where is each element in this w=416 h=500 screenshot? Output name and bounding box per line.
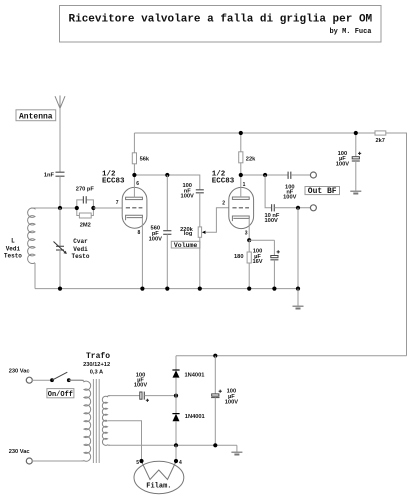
anode U1 bbox=[126, 197, 143, 199]
wire coil bottom bbox=[34, 263, 36, 289]
svg-text:Testo: Testo bbox=[4, 253, 22, 260]
svg-text:6: 6 bbox=[136, 181, 139, 187]
diode D2 1N4001 bbox=[175, 396, 177, 414]
terminal 230Vac top bbox=[26, 377, 32, 383]
capacitor 270 pF bbox=[83, 196, 86, 203]
node combo right bbox=[91, 206, 95, 210]
inductor L bbox=[28, 208, 35, 264]
capacitor 100nF (to volume) bbox=[196, 190, 204, 193]
node out2 bbox=[296, 206, 300, 210]
wire secondary top bbox=[108, 395, 140, 397]
capacitor 100uF 16V bbox=[273, 240, 275, 255]
svg-text:2k7: 2k7 bbox=[375, 138, 385, 144]
capacitor 560 pF bbox=[166, 175, 168, 231]
wire cathode lead U1 bbox=[141, 218, 143, 289]
svg-text:1nF: 1nF bbox=[44, 173, 55, 179]
node bus cathode1 bbox=[140, 287, 144, 291]
wire Cvar bottom bbox=[59, 250, 61, 289]
transformer primary winding bbox=[69, 380, 91, 461]
svg-text:L: L bbox=[11, 238, 15, 245]
transformer secondary winding bottom bbox=[102, 420, 110, 445]
wire to switch bbox=[32, 379, 52, 381]
wire rail to ground bbox=[236, 445, 238, 451]
tube U1 1/2 ECC83 envelope bbox=[122, 187, 147, 228]
capacitor 100uF 100V (B+ decoupling) bbox=[355, 133, 357, 156]
wire anode2 net bbox=[241, 174, 288, 176]
svg-text:Out BF: Out BF bbox=[308, 187, 337, 196]
node 22k top bbox=[239, 131, 243, 135]
wire switch to trafo bbox=[69, 379, 84, 381]
node cathode2 bbox=[247, 238, 251, 242]
node pin 4 bbox=[174, 459, 178, 463]
svg-text:Filam.: Filam. bbox=[146, 482, 171, 490]
Antenna label box bbox=[16, 110, 56, 121]
node out branch bbox=[263, 173, 267, 177]
wire bus to right edge bbox=[386, 133, 407, 356]
Volume label box bbox=[171, 241, 200, 248]
resistor 180 bbox=[248, 240, 250, 252]
capacitor 10 nF bbox=[272, 204, 275, 211]
wire pin4 drop bbox=[175, 445, 177, 461]
svg-text:ECC83: ECC83 bbox=[212, 177, 235, 185]
svg-text:Ricevitore valvolare a falla d: Ricevitore valvolare a falla di griglia … bbox=[69, 14, 373, 26]
cathode U1 bbox=[126, 215, 143, 220]
resistor 22k bbox=[240, 133, 242, 152]
wire B+ bus bbox=[134, 132, 375, 134]
wire anode lead U1 bbox=[133, 175, 135, 197]
svg-text:56k: 56k bbox=[140, 156, 150, 162]
wire resistor branch bbox=[77, 208, 94, 216]
svg-text:Volume: Volume bbox=[174, 242, 198, 249]
node bus 560pF bbox=[165, 287, 169, 291]
node bus Cvar bbox=[58, 287, 62, 291]
svg-text:ECC83: ECC83 bbox=[102, 177, 125, 185]
svg-text:22k: 22k bbox=[246, 156, 256, 162]
cathode U2 bbox=[232, 216, 249, 221]
svg-text:0,3 A: 0,3 A bbox=[90, 370, 103, 376]
wire anode1 net bbox=[134, 175, 199, 189]
svg-text:5: 5 bbox=[136, 460, 139, 466]
resistor 2M2 bbox=[79, 213, 91, 218]
svg-text:100V: 100V bbox=[134, 383, 147, 389]
node anode2 bbox=[239, 173, 243, 177]
node pin 5 bbox=[139, 459, 143, 463]
svg-text:by M. Fuca: by M. Fuca bbox=[329, 28, 372, 36]
antenna symbol bbox=[55, 96, 65, 109]
terminal 230Vac bottom bbox=[26, 458, 32, 464]
svg-text:100V: 100V bbox=[181, 194, 194, 200]
On/Off label box bbox=[47, 389, 74, 398]
plus sign bbox=[358, 152, 361, 155]
capacitor 100 nF output bbox=[288, 172, 291, 179]
node bus ground bbox=[296, 287, 300, 291]
grid U1 dashed bbox=[126, 207, 143, 209]
capacitor 100uF 100V series bbox=[140, 392, 142, 399]
terminal Out BF 1 bbox=[310, 172, 316, 178]
wire bus to ground bbox=[297, 289, 299, 306]
node bus 180 bbox=[247, 287, 251, 291]
svg-text:230 Vac: 230 Vac bbox=[9, 449, 30, 455]
svg-text:230 Vac: 230 Vac bbox=[9, 368, 30, 374]
anode U2 bbox=[232, 197, 249, 199]
resistor 56k bbox=[133, 133, 135, 153]
capacitor 1nF bbox=[56, 172, 65, 176]
terminal Out BF 2 bbox=[310, 205, 316, 211]
resistor 2k7 bbox=[375, 131, 386, 135]
switch S1 On/Off bbox=[50, 378, 54, 382]
ground G1 bbox=[350, 190, 361, 192]
svg-text:1: 1 bbox=[243, 182, 246, 188]
node filter cap top bbox=[213, 354, 217, 358]
svg-text:Vedi: Vedi bbox=[6, 245, 21, 252]
wire secondary bottom rail bbox=[108, 444, 237, 446]
wire antenna to grid node bbox=[59, 176, 61, 208]
grid U2 dashed bbox=[232, 207, 249, 209]
wire secondary mid tap bbox=[108, 421, 142, 461]
wire cap branch bbox=[77, 200, 94, 208]
wire ground bus bbox=[35, 288, 298, 290]
wire antenna mast bbox=[59, 108, 61, 172]
svg-text:Cvar: Cvar bbox=[73, 238, 88, 245]
svg-text:100V: 100V bbox=[336, 161, 349, 167]
wire out2 to ground bus bbox=[297, 208, 299, 289]
node rail D2 bbox=[174, 443, 178, 447]
wire cap to pot bbox=[199, 193, 201, 227]
title box bbox=[60, 6, 382, 43]
ground G3 bbox=[231, 451, 242, 453]
node 560pF tap bbox=[165, 173, 169, 177]
svg-text:Vedi: Vedi bbox=[73, 246, 88, 253]
svg-text:100V: 100V bbox=[149, 237, 162, 243]
ground G2 bbox=[293, 305, 304, 307]
diode D1 1N4001 bbox=[175, 356, 177, 370]
svg-text:Antenna: Antenna bbox=[19, 113, 53, 122]
tube U2 1/2 ECC83 envelope bbox=[229, 187, 254, 228]
svg-text:8: 8 bbox=[138, 230, 141, 236]
node rail cap bbox=[213, 443, 217, 447]
svg-text:Testo: Testo bbox=[71, 253, 89, 260]
node antenna junction bbox=[58, 206, 62, 210]
filament tube heater bbox=[134, 461, 184, 493]
Out BF label box bbox=[305, 187, 340, 195]
svg-text:1N4001: 1N4001 bbox=[185, 414, 205, 420]
transformer core bbox=[93, 379, 99, 463]
svg-text:2M2: 2M2 bbox=[80, 223, 91, 229]
svg-text:On/Off: On/Off bbox=[48, 391, 73, 399]
svg-text:180: 180 bbox=[234, 254, 244, 260]
svg-text:100V: 100V bbox=[283, 195, 296, 201]
svg-text:100V: 100V bbox=[265, 218, 278, 224]
svg-text:2: 2 bbox=[222, 201, 225, 207]
svg-text:3: 3 bbox=[245, 230, 248, 236]
svg-text:270 pF: 270 pF bbox=[76, 187, 95, 193]
node bus pot bbox=[198, 287, 202, 291]
wiper arrow bbox=[202, 231, 206, 234]
potentiometer 220k log bbox=[198, 227, 201, 237]
wire cathode lead U2 bbox=[248, 218, 250, 240]
variable capacitor Cvar bbox=[59, 208, 61, 246]
wire cap to diode junction bbox=[145, 395, 177, 397]
svg-text:230/12+12: 230/12+12 bbox=[83, 362, 110, 368]
node combo left bbox=[75, 206, 79, 210]
svg-text:100V: 100V bbox=[225, 400, 238, 406]
node 100uF top bbox=[354, 131, 358, 135]
svg-text:Trafo: Trafo bbox=[86, 352, 110, 361]
svg-text:4: 4 bbox=[179, 460, 182, 466]
wire out lower branch bbox=[265, 175, 271, 208]
svg-text:16V: 16V bbox=[252, 259, 262, 265]
transformer secondary winding top bbox=[102, 396, 110, 422]
svg-text:1N4001: 1N4001 bbox=[185, 373, 205, 379]
svg-text:log: log bbox=[184, 231, 193, 237]
wire to Out BF 1 bbox=[291, 174, 311, 176]
wire PS top rail bbox=[176, 355, 407, 357]
wire anode lead U2 bbox=[240, 175, 242, 197]
svg-text:7: 7 bbox=[116, 200, 119, 206]
node anode1 bbox=[132, 173, 136, 177]
heater zigzag bbox=[142, 462, 177, 480]
wire to grid tube1 bbox=[93, 207, 122, 209]
wire cathode2 to cap bbox=[249, 239, 274, 241]
capacitor 100uF 100V filter bbox=[214, 356, 216, 394]
wire grid net horizontal bbox=[33, 207, 77, 209]
node bus 100uF16V bbox=[272, 287, 276, 291]
plus sign bbox=[277, 250, 280, 253]
wire to Out BF 2 bbox=[275, 207, 311, 209]
node diode junction bbox=[174, 394, 178, 398]
